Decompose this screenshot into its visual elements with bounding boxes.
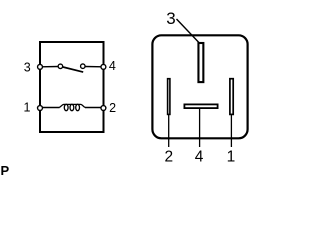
switch S blade (open) bbox=[63, 67, 83, 72]
switch S fixed contact left bbox=[58, 64, 63, 69]
connector outline (relay bottom view) bbox=[152, 35, 247, 138]
svg-text:4: 4 bbox=[109, 59, 116, 73]
wire switch contact to pin4 bbox=[85, 66, 102, 68]
wire pin1 to coil bbox=[41, 107, 60, 109]
pin 4 slot (horizontal bar) bbox=[184, 104, 217, 108]
switch S fixed contact right bbox=[81, 64, 86, 69]
pin 1 slot (vertical right) bbox=[230, 79, 233, 115]
relay body K1 (schematic outline) bbox=[40, 42, 104, 132]
svg-text:3: 3 bbox=[24, 60, 31, 74]
svg-text:4: 4 bbox=[195, 148, 204, 165]
coil L1 loop 2 bbox=[70, 104, 74, 110]
leader line slot to label 2 bbox=[168, 114, 170, 147]
leader line from label 3 to slot 3 bbox=[177, 19, 200, 44]
svg-text:P: P bbox=[1, 163, 10, 175]
leader line slot to label 4 bbox=[199, 109, 201, 148]
pin 2 terminal circle bbox=[101, 106, 106, 111]
wire coil to pin2 bbox=[85, 107, 103, 109]
wire pin3 to switch contact bbox=[41, 66, 59, 68]
coil L1 top line bbox=[59, 104, 85, 107]
coil L1 loop 1 bbox=[64, 104, 68, 110]
pin 3 terminal circle bbox=[38, 64, 43, 69]
leader line slot to label 1 bbox=[230, 114, 232, 147]
svg-text:1: 1 bbox=[227, 148, 236, 165]
pin 2 slot (vertical left) bbox=[168, 79, 170, 115]
svg-text:1: 1 bbox=[24, 101, 31, 115]
svg-text:2: 2 bbox=[109, 101, 116, 115]
svg-text:3: 3 bbox=[166, 9, 175, 28]
svg-text:2: 2 bbox=[164, 148, 173, 165]
pin 1 terminal circle bbox=[38, 106, 43, 111]
coil L1 loop 3 bbox=[76, 104, 80, 110]
pin 4 terminal circle bbox=[101, 64, 106, 69]
pin 3 slot (vertical) bbox=[198, 43, 203, 82]
